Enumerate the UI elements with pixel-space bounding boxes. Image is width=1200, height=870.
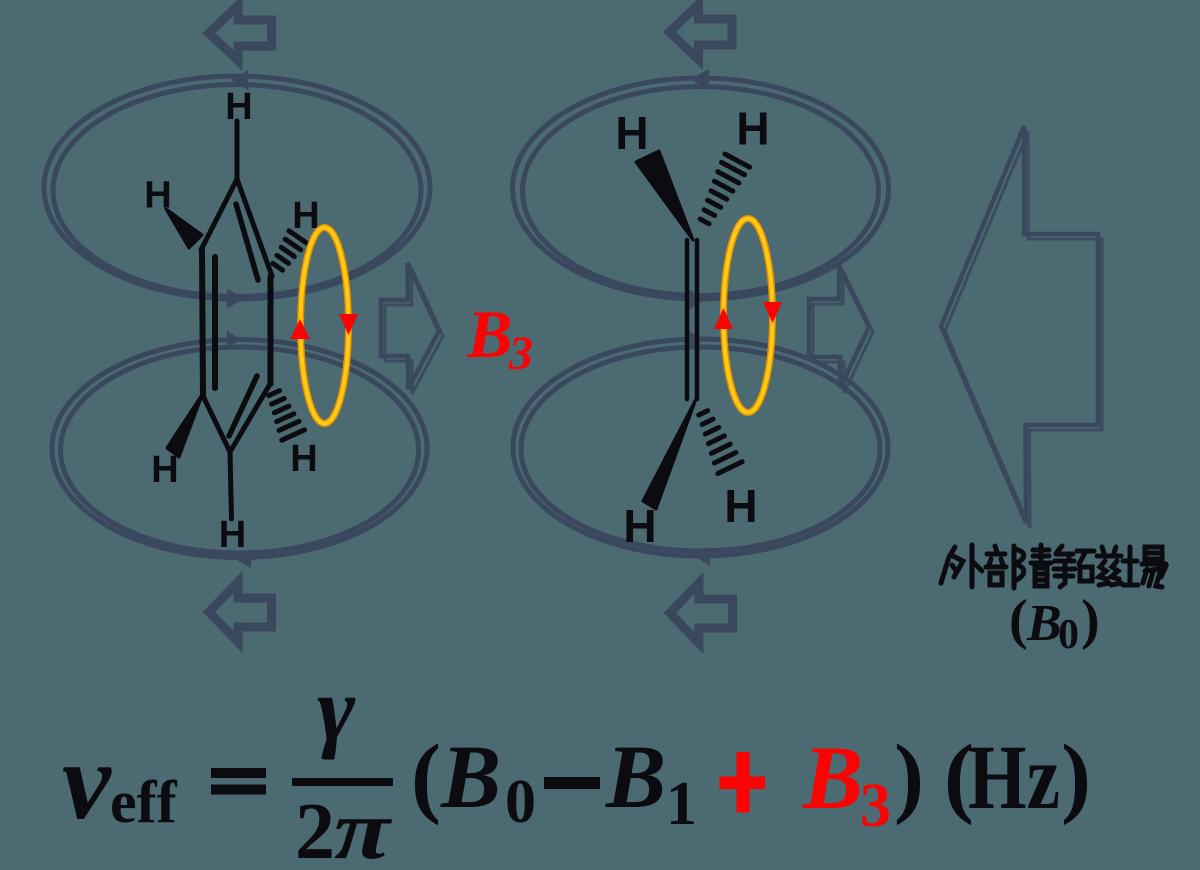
svg-text:H: H (225, 86, 252, 128)
hash bond lower-right H (263, 388, 305, 440)
hollow arrow top-left (209, 6, 272, 61)
field loop bottom-middle inner ellipse (521, 347, 880, 551)
svg-text:γ: γ (317, 658, 356, 760)
wedge bond upper-left H (166, 209, 202, 248)
red down triangle middle ring (763, 302, 782, 323)
ring edge T-UR (237, 179, 272, 276)
svg-text:(: ( (411, 727, 441, 826)
arrowhead left on bottom-left loop (234, 549, 251, 568)
svg-text:3: 3 (508, 327, 533, 380)
svg-text:2: 2 (295, 788, 335, 870)
H labels alkene (615, 103, 769, 553)
kanji 磁 (1077, 547, 1121, 585)
fraction bar (292, 778, 393, 786)
field loop top-left inner ellipse (53, 85, 421, 297)
svg-text:H: H (736, 103, 769, 155)
svg-text:H: H (219, 514, 246, 556)
label (B0) (1009, 589, 1100, 658)
svg-text:): ) (1061, 727, 1091, 826)
wedge bond top-left H middle (636, 151, 693, 240)
kanji 静 (1031, 545, 1075, 587)
minus (544, 777, 600, 789)
kanji 場 (1123, 547, 1166, 587)
svg-text:π: π (334, 783, 393, 870)
svg-text:H: H (290, 438, 317, 480)
induced current ring middle (orange) (724, 219, 773, 413)
C=C double bond line 2 (695, 240, 700, 399)
svg-text:eff: eff (110, 769, 178, 835)
ring edge LL-B (203, 396, 230, 452)
svg-text:): ) (894, 727, 924, 826)
svg-text:0: 0 (505, 768, 536, 836)
svg-text:(: ( (1009, 589, 1028, 651)
red up triangle middle ring (714, 308, 733, 329)
svg-text:H: H (615, 107, 648, 159)
svg-text:B: B (1026, 595, 1062, 652)
svg-text:Hz: Hz (968, 726, 1060, 828)
arrowhead right on lower center line middle (689, 331, 703, 349)
svg-text:H: H (151, 449, 178, 491)
big hollow left arrow B0 shadow (945, 132, 1102, 529)
hollow right arrow after benzene (381, 263, 443, 394)
big hollow left arrow B0 (941, 127, 1098, 524)
svg-text:B: B (466, 296, 512, 372)
field loop bottom-left outer ellipse (52, 340, 427, 558)
svg-text:0: 0 (1058, 612, 1079, 658)
svg-text:B: B (605, 728, 666, 827)
H labels benzene (144, 86, 319, 556)
svg-text:ν: ν (62, 720, 112, 842)
svg-text:3: 3 (860, 772, 891, 840)
field loop top-middle inner ellipse (523, 87, 879, 296)
double bond inner UL-LL (212, 257, 218, 388)
hash bond upper-right H (269, 231, 307, 273)
C=C double bond line 1 (685, 240, 690, 399)
arrowhead left on top-middle loop (690, 69, 709, 90)
field loop bottom-left inner ellipse (61, 347, 419, 553)
hollow arrow top-middle (670, 5, 733, 60)
svg-text:1: 1 (666, 770, 697, 838)
hollow arrow bottom-middle (670, 583, 733, 643)
equals sign (211, 768, 266, 778)
double bond inner T-UR (236, 204, 258, 280)
label 外部静磁場 (hand-drawn kanji) (941, 545, 1166, 588)
alkene molecule (687, 240, 697, 399)
hash bond bottom-right H middle (691, 407, 742, 474)
hash bond top-right H middle (692, 154, 749, 228)
red up triangle left ring (290, 319, 310, 339)
red down triangle left ring (339, 314, 358, 335)
wedge bond lower-left H (167, 393, 203, 457)
kanji 部 (986, 546, 1024, 588)
bond top H (235, 121, 240, 181)
kanji 外 (941, 545, 982, 587)
arrowhead left on top-left loop (231, 70, 248, 90)
plus red (720, 752, 766, 813)
ring edge UL-LL (202, 250, 203, 396)
svg-text:H: H (724, 480, 757, 532)
bond bottom H (230, 452, 232, 519)
svg-text:B: B (802, 729, 863, 828)
svg-text:): ) (1081, 589, 1100, 651)
arrowhead right on upper center line left (227, 289, 244, 309)
ring edge LR-B (230, 384, 270, 452)
arrowhead left on bottom-middle loop (695, 547, 711, 566)
svg-text:B: B (440, 728, 501, 827)
field loop top-middle outer ellipse (513, 78, 889, 299)
hollow right arrow after alkene (809, 266, 873, 393)
hollow arrow bottom-left (209, 582, 272, 642)
benzene molecule (201, 121, 272, 519)
field loop bottom-middle outer ellipse (513, 339, 888, 556)
arrowhead right on upper center line middle (689, 290, 706, 310)
ring edge T-UL (201, 179, 237, 250)
field loop top-left outer ellipse (44, 76, 430, 299)
induced current ring left (orange) (301, 228, 349, 424)
svg-text:H: H (623, 500, 656, 552)
svg-text:H: H (144, 175, 171, 217)
arrowhead right on lower center line left (227, 331, 241, 349)
wedge bond bottom-left H middle (643, 399, 696, 509)
ring edge UR-LR (268, 276, 274, 384)
double bond inner LR-B (229, 376, 257, 436)
